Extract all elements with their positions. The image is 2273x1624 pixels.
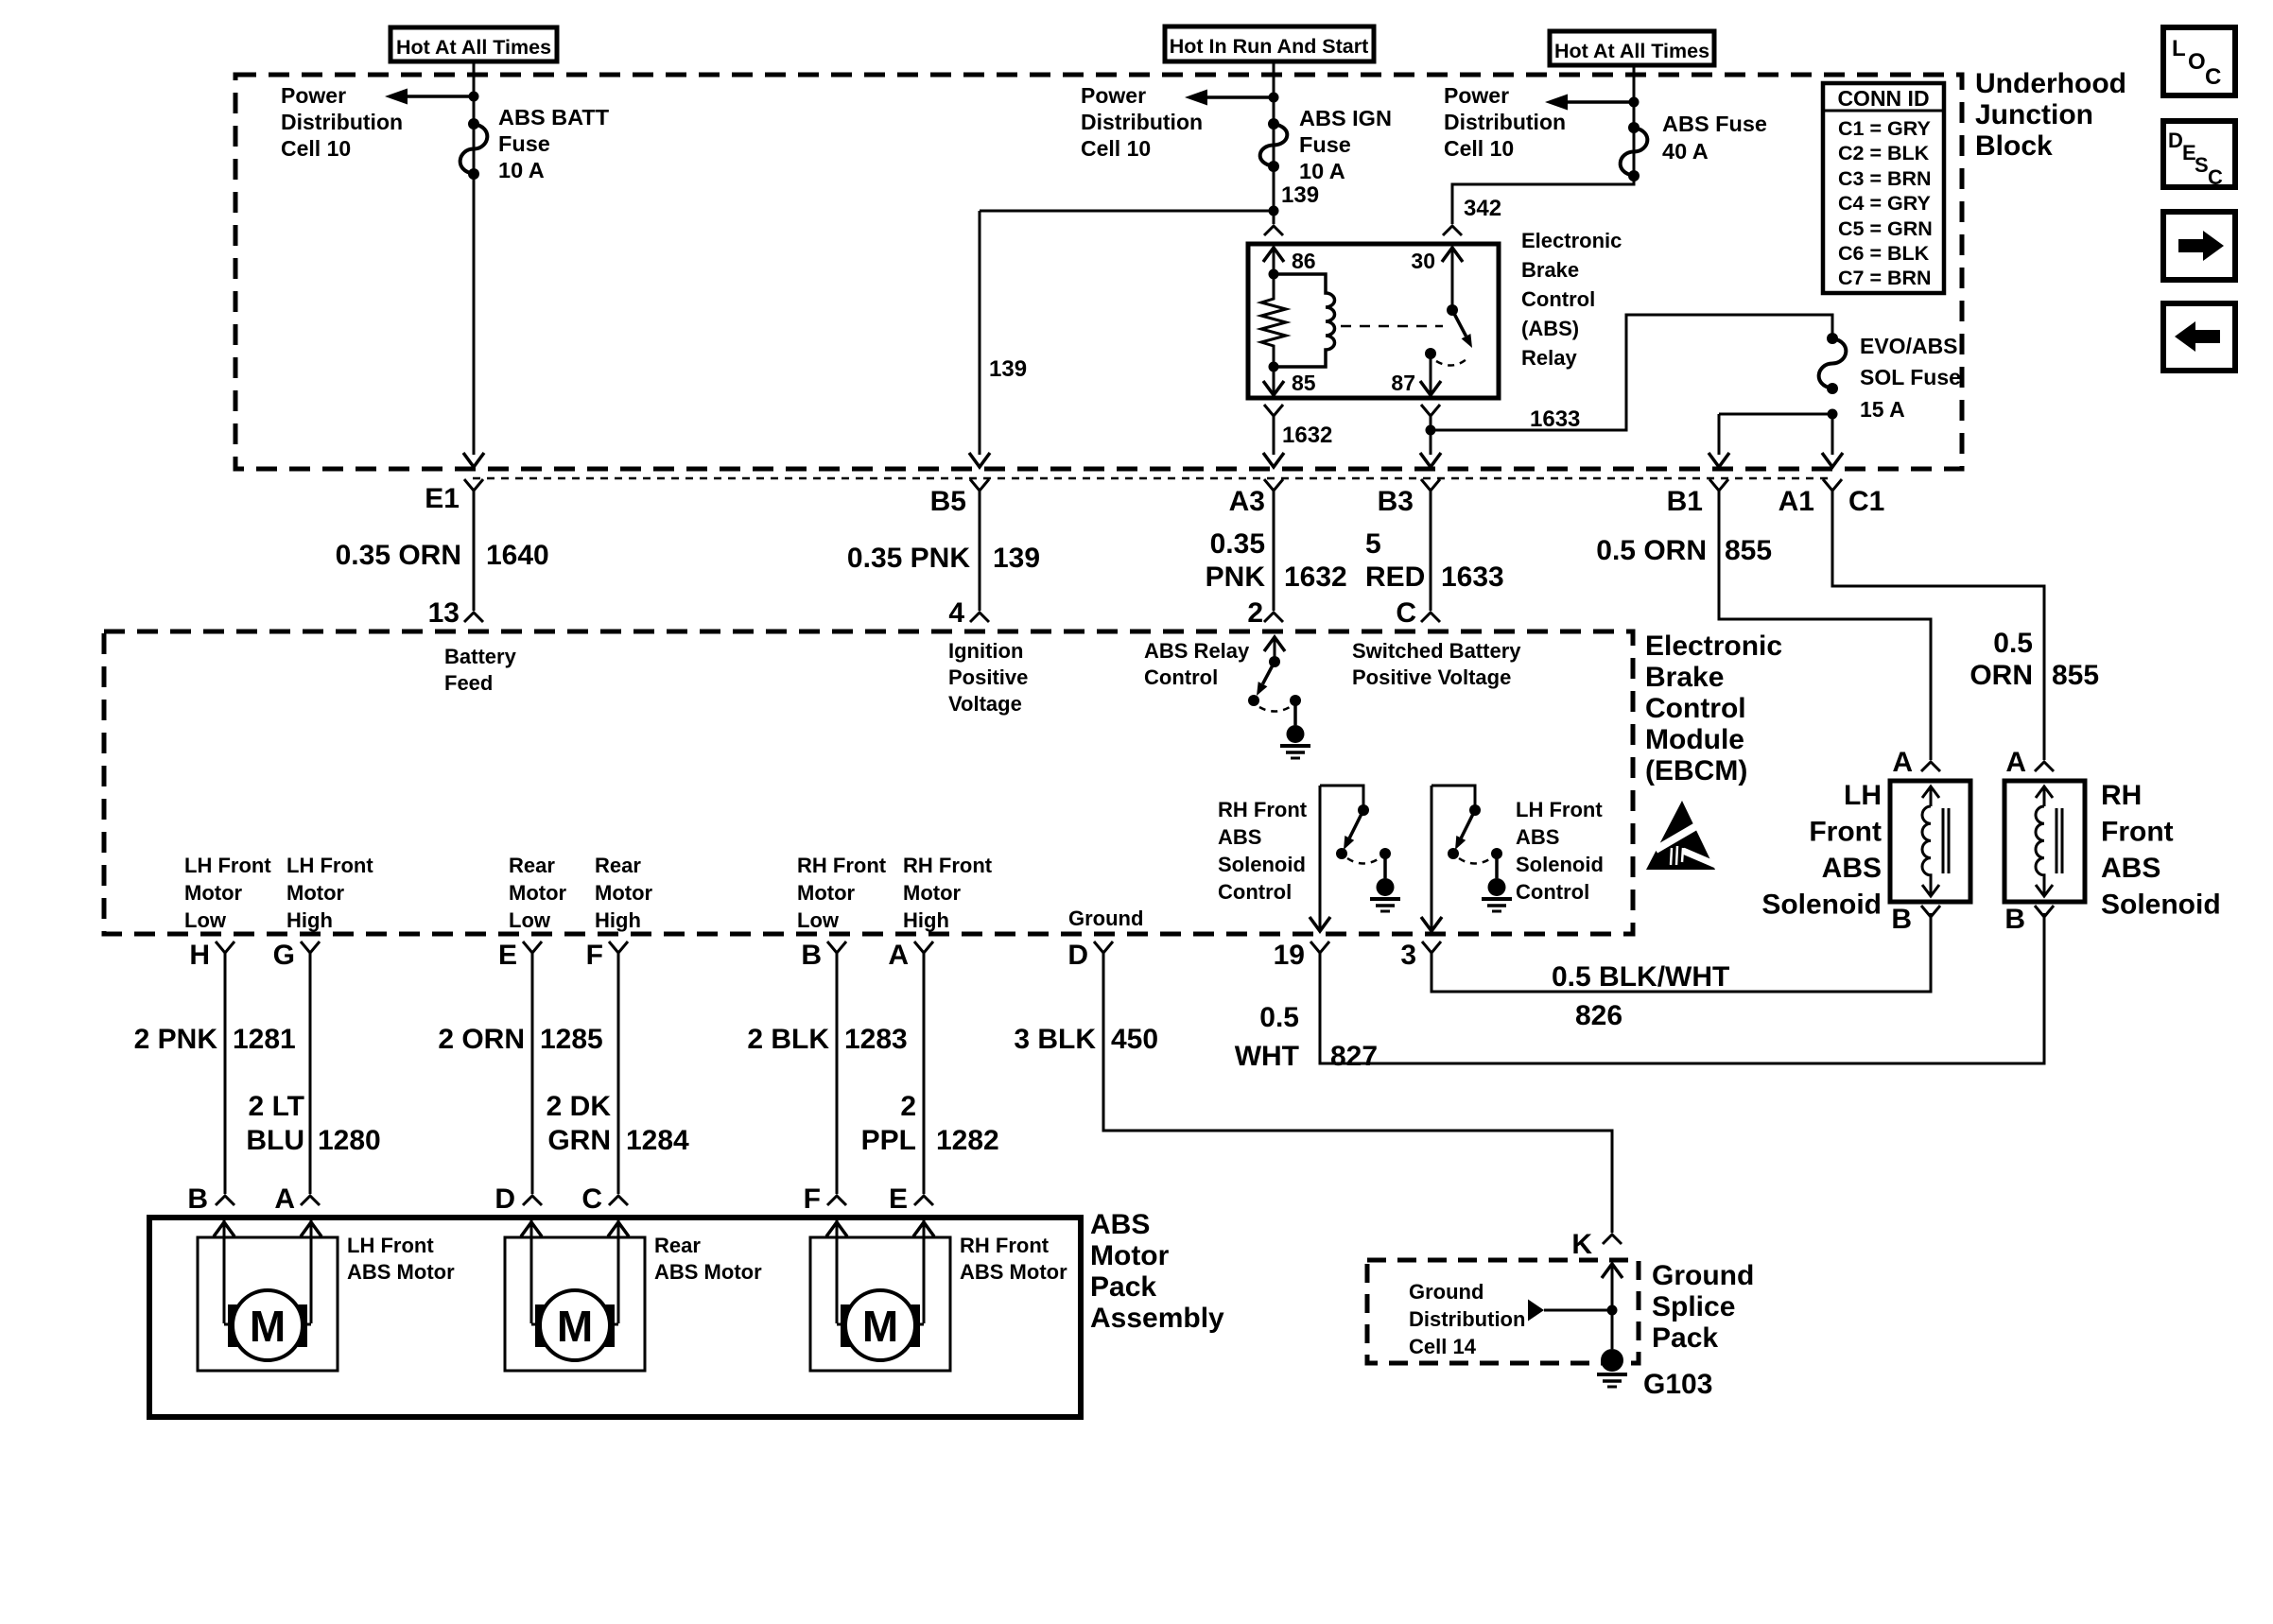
svg-text:O: O <box>2188 49 2206 75</box>
svg-text:E: E <box>498 940 517 971</box>
svg-text:ABS BATT: ABS BATT <box>498 105 610 130</box>
svg-text:Ground: Ground <box>1409 1280 1484 1304</box>
svg-text:2 PNK: 2 PNK <box>134 1024 218 1055</box>
svg-text:ABS IGN: ABS IGN <box>1299 106 1392 130</box>
svg-text:LH: LH <box>1844 780 1882 811</box>
svg-text:ABS Relay: ABS Relay <box>1144 639 1250 663</box>
svg-text:Solenoid: Solenoid <box>1218 853 1306 876</box>
svg-text:139: 139 <box>993 543 1040 574</box>
svg-text:Ground: Ground <box>1652 1260 1754 1291</box>
svg-text:19: 19 <box>1274 940 1305 971</box>
svg-text:A: A <box>274 1183 295 1215</box>
svg-text:86: 86 <box>1292 249 1316 273</box>
svg-text:ABS Motor: ABS Motor <box>654 1260 762 1284</box>
svg-text:Block: Block <box>1975 130 2053 162</box>
svg-text:5: 5 <box>1365 528 1381 560</box>
svg-text:Positive: Positive <box>948 665 1028 689</box>
svg-text:Rear: Rear <box>509 854 555 877</box>
svg-text:Power: Power <box>1081 83 1146 108</box>
svg-text:0.35 ORN: 0.35 ORN <box>336 540 461 571</box>
svg-text:High: High <box>286 908 333 932</box>
svg-text:B5: B5 <box>930 486 966 517</box>
svg-text:0.5 BLK/WHT: 0.5 BLK/WHT <box>1552 961 1729 993</box>
svg-text:Battery: Battery <box>444 645 517 668</box>
svg-text:342: 342 <box>1464 196 1501 221</box>
svg-text:Control: Control <box>1521 287 1595 311</box>
svg-text:Cell 10: Cell 10 <box>1444 136 1514 161</box>
svg-text:ABS: ABS <box>1218 825 1261 849</box>
svg-text:1281: 1281 <box>233 1024 296 1055</box>
svg-text:High: High <box>903 908 949 932</box>
svg-text:B3: B3 <box>1378 486 1414 517</box>
svg-text:826: 826 <box>1575 1000 1622 1031</box>
svg-text:855: 855 <box>2052 660 2099 691</box>
svg-text:827: 827 <box>1330 1041 1378 1072</box>
svg-text:B1: B1 <box>1667 486 1703 517</box>
svg-text:RH Front: RH Front <box>960 1234 1050 1257</box>
svg-text:3: 3 <box>1400 940 1416 971</box>
svg-text:B: B <box>187 1183 208 1215</box>
svg-text:1640: 1640 <box>486 540 549 571</box>
svg-text:Distribution: Distribution <box>1409 1307 1525 1331</box>
svg-text:ABS: ABS <box>1822 853 1882 884</box>
svg-text:C: C <box>581 1183 602 1215</box>
svg-text:450: 450 <box>1111 1024 1158 1055</box>
svg-text:B: B <box>801 940 822 971</box>
svg-text:Cell 10: Cell 10 <box>281 136 351 161</box>
svg-text:C1: C1 <box>1848 486 1884 517</box>
svg-text:(EBCM): (EBCM) <box>1645 755 1747 786</box>
svg-text:2 DK: 2 DK <box>547 1091 612 1122</box>
svg-text:ORN: ORN <box>1969 660 2033 691</box>
svg-text:LH Front: LH Front <box>286 854 373 877</box>
svg-text:1632: 1632 <box>1282 423 1332 448</box>
svg-text:Module: Module <box>1645 724 1744 755</box>
svg-text:BLU: BLU <box>246 1125 304 1156</box>
svg-text:High: High <box>595 908 641 932</box>
svg-text:A1: A1 <box>1778 486 1814 517</box>
svg-text:1280: 1280 <box>318 1125 381 1156</box>
svg-text:D: D <box>2168 129 2183 152</box>
svg-text:ABS: ABS <box>1516 825 1559 849</box>
svg-text:C1 = GRY: C1 = GRY <box>1838 117 1931 140</box>
svg-text:C2 = BLK: C2 = BLK <box>1838 142 1930 164</box>
svg-text:Positive Voltage: Positive Voltage <box>1352 665 1511 689</box>
svg-text:Motor: Motor <box>509 881 567 905</box>
svg-text:10 A: 10 A <box>1299 159 1345 183</box>
svg-text:Distribution: Distribution <box>281 110 403 134</box>
svg-text:ABS: ABS <box>2101 853 2160 884</box>
svg-text:RH Front: RH Front <box>1218 798 1308 821</box>
svg-text:D: D <box>1067 940 1088 971</box>
svg-text:0.5: 0.5 <box>1259 1002 1299 1033</box>
svg-text:2 LT: 2 LT <box>249 1091 304 1122</box>
svg-text:1283: 1283 <box>844 1024 908 1055</box>
svg-text:87: 87 <box>1391 371 1415 395</box>
svg-text:139: 139 <box>1281 182 1319 208</box>
svg-text:Fuse: Fuse <box>498 131 550 156</box>
svg-text:LH Front: LH Front <box>347 1234 434 1257</box>
svg-text:15 A: 15 A <box>1860 397 1905 422</box>
svg-text:Rear: Rear <box>595 854 641 877</box>
svg-text:Rear: Rear <box>654 1234 701 1257</box>
svg-text:1282: 1282 <box>936 1125 999 1156</box>
svg-text:0.35: 0.35 <box>1210 528 1265 560</box>
svg-text:2 BLK: 2 BLK <box>747 1024 829 1055</box>
svg-text:Motor: Motor <box>184 881 243 905</box>
svg-text:13: 13 <box>428 597 460 629</box>
svg-text:CONN ID: CONN ID <box>1837 86 1929 111</box>
svg-text:H: H <box>189 940 210 971</box>
svg-text:Distribution: Distribution <box>1444 110 1566 134</box>
svg-text:Cell 14: Cell 14 <box>1409 1335 1477 1358</box>
svg-text:139: 139 <box>989 356 1027 382</box>
svg-text:2: 2 <box>1247 597 1263 629</box>
svg-text:B: B <box>1891 904 1912 935</box>
svg-text:LH Front: LH Front <box>184 854 271 877</box>
svg-text:M: M <box>862 1302 898 1351</box>
svg-text:Motor: Motor <box>286 881 345 905</box>
svg-text:Solenoid: Solenoid <box>1516 853 1604 876</box>
svg-text:Brake: Brake <box>1521 258 1579 282</box>
svg-text:ABS: ABS <box>1090 1209 1150 1240</box>
svg-text:Motor: Motor <box>903 881 962 905</box>
svg-text:M: M <box>250 1302 286 1351</box>
svg-text:1285: 1285 <box>540 1024 603 1055</box>
svg-text:Hot In Run And Start: Hot In Run And Start <box>1170 35 1369 58</box>
svg-text:Ground: Ground <box>1068 907 1143 930</box>
svg-text:Motor: Motor <box>1090 1240 1170 1271</box>
svg-text:Brake: Brake <box>1645 662 1724 693</box>
svg-text:3 BLK: 3 BLK <box>1014 1024 1096 1055</box>
svg-text:SOL Fuse: SOL Fuse <box>1860 365 1961 389</box>
svg-text:Electronic: Electronic <box>1645 631 1782 662</box>
svg-text:C4 = GRY: C4 = GRY <box>1838 192 1931 215</box>
svg-text:Feed: Feed <box>444 671 493 695</box>
svg-text:Power: Power <box>281 83 346 108</box>
svg-text:Control: Control <box>1516 880 1589 904</box>
svg-text:Electronic: Electronic <box>1521 229 1622 252</box>
svg-text:Underhood: Underhood <box>1975 68 2126 99</box>
svg-text:ABS Motor: ABS Motor <box>347 1260 455 1284</box>
svg-text:ABS Motor: ABS Motor <box>960 1260 1067 1284</box>
svg-text:Low: Low <box>509 908 551 932</box>
svg-text:Assembly: Assembly <box>1090 1303 1224 1334</box>
svg-text:PPL: PPL <box>861 1125 916 1156</box>
svg-text:E: E <box>889 1183 908 1215</box>
svg-text:Solenoid: Solenoid <box>2101 890 2221 921</box>
svg-text:Front: Front <box>2101 817 2174 848</box>
svg-text:Control: Control <box>1645 693 1746 724</box>
svg-text:0.5: 0.5 <box>1993 628 2033 659</box>
svg-text:PNK: PNK <box>1206 561 1266 593</box>
svg-text:2: 2 <box>900 1091 916 1122</box>
svg-text:EVO/ABS: EVO/ABS <box>1860 334 1958 358</box>
svg-text:Cell 10: Cell 10 <box>1081 136 1151 161</box>
svg-text:Low: Low <box>797 908 840 932</box>
svg-text:Distribution: Distribution <box>1081 110 1203 134</box>
svg-text:A: A <box>1892 747 1913 778</box>
svg-text:C7 = BRN: C7 = BRN <box>1838 267 1932 289</box>
svg-text:G103: G103 <box>1643 1369 1712 1400</box>
svg-text:RH: RH <box>2101 780 2142 811</box>
svg-text:GRN: GRN <box>547 1125 611 1156</box>
svg-text:F: F <box>586 940 603 971</box>
svg-text:C: C <box>2205 64 2221 90</box>
svg-text:RH Front: RH Front <box>903 854 993 877</box>
svg-text:Motor: Motor <box>595 881 653 905</box>
svg-text:G: G <box>273 940 295 971</box>
svg-text:Control: Control <box>1144 665 1218 689</box>
svg-text:RED: RED <box>1365 561 1425 593</box>
svg-text:A3: A3 <box>1229 486 1265 517</box>
svg-text:D: D <box>495 1183 515 1215</box>
svg-text:C3 = BRN: C3 = BRN <box>1838 167 1932 190</box>
svg-text:F: F <box>804 1183 821 1215</box>
svg-text:K: K <box>1571 1229 1592 1260</box>
svg-text:Control: Control <box>1218 880 1292 904</box>
svg-text:C6 = BLK: C6 = BLK <box>1838 242 1930 265</box>
svg-text:2 ORN: 2 ORN <box>438 1024 525 1055</box>
svg-text:855: 855 <box>1725 535 1772 566</box>
svg-text:WHT: WHT <box>1235 1041 1299 1072</box>
svg-text:L: L <box>2172 36 2186 61</box>
svg-text:Pack: Pack <box>1652 1322 1718 1354</box>
svg-text:85: 85 <box>1292 371 1316 395</box>
svg-text:A: A <box>888 940 909 971</box>
svg-text:Junction: Junction <box>1975 99 2093 130</box>
svg-text:Power: Power <box>1444 83 1509 108</box>
svg-text:30: 30 <box>1411 249 1435 273</box>
svg-text:1633: 1633 <box>1441 561 1504 593</box>
svg-text:C: C <box>1396 597 1416 629</box>
svg-text:Front: Front <box>1809 817 1882 848</box>
svg-text:1284: 1284 <box>626 1125 689 1156</box>
svg-text:B: B <box>2004 904 2025 935</box>
svg-text:Relay: Relay <box>1521 346 1577 370</box>
svg-text:0.35 PNK: 0.35 PNK <box>847 543 970 574</box>
svg-text:40 A: 40 A <box>1662 139 1709 164</box>
svg-text:C: C <box>2208 165 2223 189</box>
svg-text:Fuse: Fuse <box>1299 132 1351 157</box>
svg-text:ABS Fuse: ABS Fuse <box>1662 112 1767 136</box>
svg-text:Hot At All Times: Hot At All Times <box>1554 40 1709 62</box>
svg-text:M: M <box>557 1302 593 1351</box>
svg-text:RH Front: RH Front <box>797 854 887 877</box>
svg-text:LH Front: LH Front <box>1516 798 1603 821</box>
svg-text:Hot At All Times: Hot At All Times <box>396 36 551 59</box>
svg-text:0.5 ORN: 0.5 ORN <box>1596 535 1707 566</box>
svg-text:Pack: Pack <box>1090 1271 1156 1303</box>
svg-text:E1: E1 <box>425 483 460 514</box>
svg-text:Switched Battery: Switched Battery <box>1352 639 1521 663</box>
svg-text:4: 4 <box>948 597 964 629</box>
svg-text:Low: Low <box>184 908 227 932</box>
svg-text:10 A: 10 A <box>498 158 545 182</box>
svg-text:S: S <box>2195 153 2209 177</box>
svg-text:Motor: Motor <box>797 881 856 905</box>
svg-text:1632: 1632 <box>1284 561 1347 593</box>
svg-text:1633: 1633 <box>1530 406 1580 432</box>
svg-text:Ignition: Ignition <box>948 639 1023 663</box>
svg-text:Splice: Splice <box>1652 1291 1735 1322</box>
svg-text:Solenoid: Solenoid <box>1761 890 1882 921</box>
svg-text:C5 = GRN: C5 = GRN <box>1838 217 1933 240</box>
svg-text:(ABS): (ABS) <box>1521 317 1579 340</box>
svg-text:A: A <box>2005 747 2026 778</box>
svg-text:Voltage: Voltage <box>948 692 1022 716</box>
